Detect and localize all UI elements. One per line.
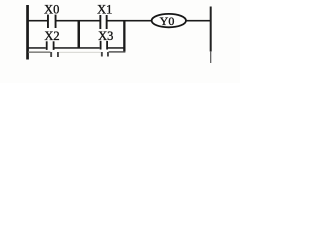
cropped contact below X3 (rung 3, cut off) [101,52,109,57]
contact X3 [98,29,113,49]
wire: left rail to contact X2 (rung 2) [27,47,46,49]
contact X0 [44,2,59,28]
faint wire: between cropped rung-3 contacts [59,52,101,53]
node B junction vertical (rung 1 to rung 2 and stub of rung 3) [123,20,125,52]
cropped contact below X2 (rung 3, cut off) [50,52,59,57]
coil Y0 [152,14,186,28]
wire: cropped rung 3 to node B [109,51,126,52]
contact X1 [97,2,112,29]
svg-text:X1: X1 [97,2,112,16]
wire: X2 to X3 (through node A) [55,47,100,49]
right power rail [210,7,212,52]
wire: coil Y0 to right rail [186,20,210,22]
svg-text:X3: X3 [98,29,113,43]
faint wire: left rail toward cropped rung 3 [28,52,50,53]
svg-text:X2: X2 [44,29,59,43]
wire: left rail to contact X0 [27,20,48,22]
wire: X3 to node B [108,47,125,49]
node A junction vertical (between rung 1 and rung 2) [78,20,81,48]
wire: X0 to X1 (through node A) [56,20,100,22]
svg-text:X0: X0 [44,2,59,16]
contact X2 [44,29,59,50]
left power rail [26,5,29,60]
svg-text:Y0: Y0 [160,14,175,28]
wire: X1 to coil Y0 (through node B) [107,20,151,22]
